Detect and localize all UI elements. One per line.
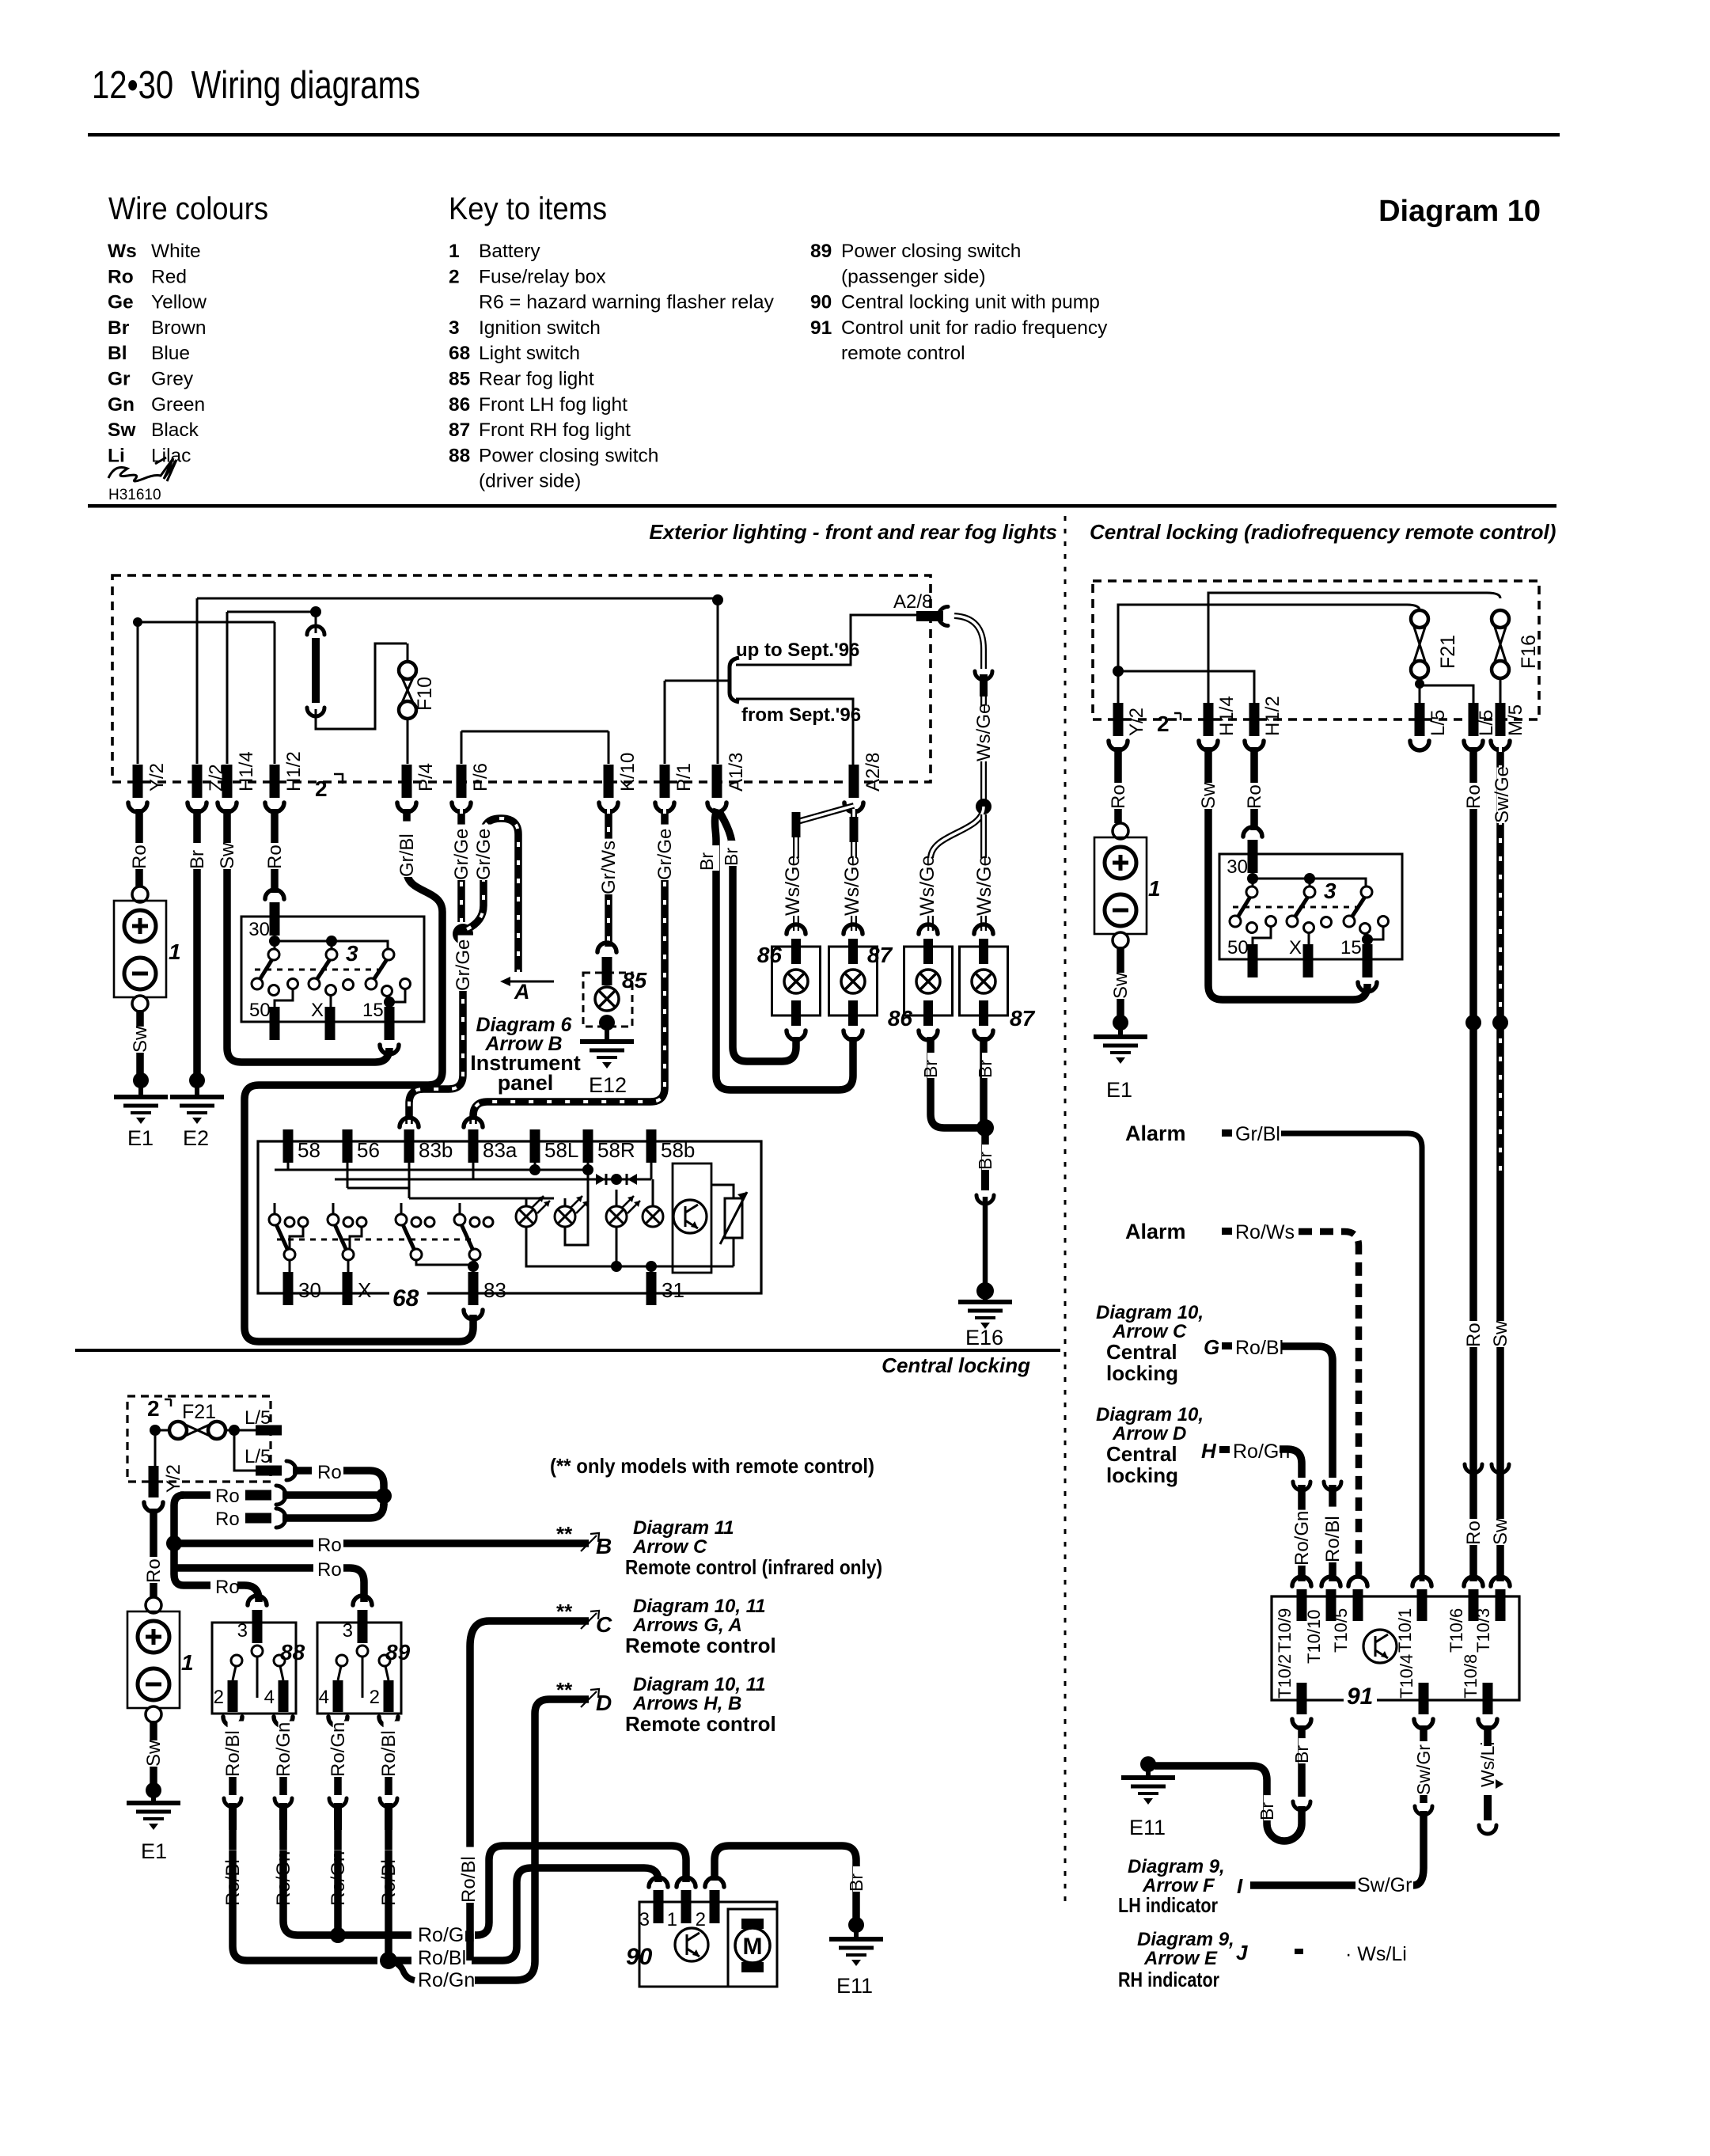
C riser wire Ro/Bl — [470, 1621, 489, 1961]
svg-text:Battery: Battery — [479, 241, 540, 262]
pin L/5 right fuse box — [1469, 703, 1479, 736]
svg-text:Ro: Ro — [1463, 1520, 1484, 1545]
svg-text:E1: E1 — [127, 1126, 154, 1150]
node: junction on ground bus — [712, 594, 723, 605]
svg-text:T10/5: T10/5 — [1331, 1608, 1351, 1653]
svg-text:Diagram 9,: Diagram 9, — [1128, 1856, 1225, 1877]
svg-text:85: 85 — [622, 968, 647, 993]
svg-text:G: G — [1204, 1335, 1219, 1359]
svg-text:Gn: Gn — [108, 394, 135, 416]
pin Y/2 (left central locking) — [154, 1430, 157, 1466]
svg-text:91: 91 — [810, 317, 832, 339]
svg-text:3: 3 — [237, 1620, 248, 1642]
svg-text:1: 1 — [449, 241, 460, 262]
fog lamp connector top — [844, 924, 863, 934]
ground E2 — [170, 1095, 224, 1099]
svg-text:· Ws/Li: · Ws/Li — [1345, 1943, 1407, 1965]
svg-text:H1/2: H1/2 — [1262, 696, 1283, 736]
svg-text:Arrow C: Arrow C — [1112, 1321, 1187, 1342]
svg-text:L/5: L/5 — [245, 1407, 271, 1429]
svg-text:Bl: Bl — [108, 343, 127, 364]
svg-text:Sw: Sw — [130, 1026, 151, 1053]
arm connections to bottom pins — [289, 1260, 291, 1272]
svg-text:Black: Black — [151, 419, 199, 441]
bulb return bus — [526, 1227, 734, 1266]
svg-text:88: 88 — [280, 1640, 305, 1664]
svg-text:(passenger side): (passenger side) — [841, 266, 985, 287]
svg-text:Sw: Sw — [108, 419, 136, 441]
pin 83 light switch — [468, 1272, 479, 1305]
arrow A to instrument panel — [508, 981, 554, 983]
svg-text:Sw/Gr: Sw/Gr — [1413, 1744, 1434, 1795]
in-line connector on Ws/Ge — [975, 671, 992, 680]
transistor symbol unit 91 — [1363, 1630, 1397, 1663]
F21 to L/5 pins — [1415, 679, 1424, 689]
svg-text:**: ** — [556, 1678, 573, 1702]
pin 1 unit 90 — [677, 1877, 696, 1887]
svg-text:86: 86 — [757, 943, 783, 967]
wire Ro from Y/2 to battery — [135, 809, 143, 886]
pin 30 — [1243, 827, 1262, 837]
svg-text:58R: 58R — [597, 1138, 635, 1162]
svg-text:Arrow C: Arrow C — [632, 1536, 707, 1558]
svg-text:Ro: Ro — [215, 1577, 240, 1598]
pin A2/8 on fuse box 2 — [849, 765, 859, 798]
svg-text:4: 4 — [319, 1687, 329, 1708]
svg-text:90: 90 — [626, 1944, 653, 1970]
battery 1 (bottom left) — [146, 1597, 161, 1613]
svg-text:2: 2 — [214, 1687, 224, 1708]
pin H1/4 on fuse box 2 — [222, 765, 233, 798]
row D exit — [549, 1695, 589, 1703]
wire Ro/Gn — [279, 1723, 287, 1795]
svg-text:Br: Br — [108, 317, 130, 339]
svg-text:Ws: Ws — [108, 241, 137, 262]
svg-text:Front RH fog light: Front RH fog light — [479, 419, 631, 441]
svg-text:H1/4: H1/4 — [1216, 696, 1238, 736]
svg-text:58b: 58b — [661, 1138, 695, 1162]
svg-text:Diagram 11: Diagram 11 — [633, 1517, 734, 1539]
svg-text:Control unit for radio frequen: Control unit for radio frequency — [841, 317, 1108, 339]
wire Sw/Ge from M/5 down to unit 91 — [1496, 747, 1504, 1179]
svg-text:58L: 58L — [544, 1138, 578, 1162]
svg-text:Ro/Bl: Ro/Bl — [222, 1730, 244, 1777]
wire Ro row 1 from L/5 — [293, 1467, 312, 1475]
svg-text:Ro: Ro — [1463, 1323, 1484, 1347]
row B to pump pin 3 — [395, 1957, 411, 1964]
svg-text:Sw: Sw — [143, 1740, 165, 1767]
svg-text:D: D — [596, 1691, 612, 1715]
battery 1 (left) — [132, 886, 148, 902]
svg-text:83: 83 — [483, 1278, 506, 1302]
svg-text:locking: locking — [1106, 1463, 1178, 1487]
in-line connector below node F10 branch — [315, 612, 317, 633]
svg-text:Ro/Bl: Ro/Bl — [1322, 1516, 1344, 1562]
panel illumination bulbs — [516, 1206, 537, 1227]
svg-text:Ro/Gn: Ro/Gn — [418, 1969, 475, 1991]
main to fog lamp 87 (pair 2) — [980, 814, 987, 931]
svg-text:P/4: P/4 — [415, 763, 437, 791]
node Gr/Ge junction — [453, 924, 473, 944]
svg-text:86: 86 — [888, 1006, 913, 1031]
svg-text:L/5: L/5 — [1476, 710, 1497, 736]
svg-text:56: 56 — [357, 1138, 380, 1162]
pins 50 X 15 — [270, 1007, 280, 1040]
Ws/Ge pair from A2/8 bottom connector — [796, 806, 854, 931]
svg-text:Y/2: Y/2 — [1126, 708, 1147, 736]
svg-text:1: 1 — [169, 939, 181, 964]
svg-text:83b: 83b — [419, 1138, 453, 1162]
fuse F10 — [407, 643, 409, 662]
pin 30 light switch — [283, 1272, 294, 1305]
pin 31 light switch — [646, 1272, 657, 1305]
pin M/5 right fuse box — [1496, 703, 1506, 736]
motor M unit 90 — [741, 1919, 764, 1929]
bracket split up-to/from Sept — [730, 658, 739, 702]
pins 50 X 15 — [1248, 944, 1258, 977]
svg-text:89: 89 — [385, 1640, 411, 1664]
svg-text:B: B — [596, 1534, 612, 1558]
svg-text:**: ** — [556, 1522, 573, 1546]
ground E1 (right) — [1094, 1034, 1147, 1039]
svg-text:E12: E12 — [589, 1073, 627, 1097]
wire Ro Y/2 to battery (right) — [1114, 747, 1122, 823]
svg-text:X: X — [1289, 937, 1302, 958]
pin X light switch — [343, 1272, 353, 1305]
regulator box with transistor — [673, 1163, 711, 1273]
svg-text:M: M — [743, 1934, 763, 1960]
svg-text:Ro/Bl: Ro/Bl — [418, 1947, 466, 1969]
pin 83b light switch — [404, 1129, 415, 1163]
svg-text:Li: Li — [108, 445, 125, 466]
row 2 connector Ro — [180, 1491, 210, 1499]
ignition switch box — [1219, 854, 1402, 959]
svg-text:Y/2: Y/2 — [146, 763, 168, 791]
pin 58R light switch — [583, 1129, 593, 1163]
svg-text:Brown: Brown — [151, 317, 206, 339]
svg-text:Ro: Ro — [317, 1535, 342, 1556]
svg-text:P/6: P/6 — [470, 763, 491, 791]
svg-text:68: 68 — [449, 343, 470, 364]
switch arms — [268, 949, 279, 960]
wire Br from pin 2 to E11 — [715, 1846, 856, 1919]
key rule — [88, 504, 1556, 508]
pin T10/6 unit 91 — [1464, 1577, 1483, 1586]
svg-text:30: 30 — [1227, 856, 1248, 878]
svg-text:F16: F16 — [1518, 635, 1540, 669]
svg-text:50: 50 — [249, 1000, 271, 1021]
pin 58L light switch — [530, 1129, 540, 1163]
svg-text:Gr/Ge: Gr/Ge — [453, 939, 474, 991]
svg-text:2: 2 — [315, 776, 328, 801]
svg-text:2: 2 — [1157, 712, 1170, 736]
svg-text:1: 1 — [1148, 876, 1161, 901]
svg-text:Ignition switch: Ignition switch — [479, 317, 601, 339]
svg-text:White: White — [151, 241, 201, 262]
svg-text:X: X — [311, 1000, 324, 1021]
svg-text:Alarm: Alarm — [1125, 1122, 1186, 1145]
fuse box 2 (small, dashed) — [127, 1396, 271, 1482]
svg-text:89: 89 — [810, 241, 832, 262]
wire: up to Sept.96 path to A2/8 — [736, 615, 916, 665]
signature + job number — [108, 457, 176, 481]
svg-text:3: 3 — [343, 1620, 353, 1642]
svg-text:A: A — [514, 980, 530, 1004]
svg-text:T10/6: T10/6 — [1446, 1608, 1466, 1653]
fuse/relay box 2 (dashed) — [112, 575, 931, 782]
ground E11 (right) — [1121, 1775, 1175, 1780]
svg-text:Ws/Ge: Ws/Ge — [973, 704, 995, 761]
svg-text:2: 2 — [147, 1396, 160, 1421]
svg-text:Ro: Ro — [264, 845, 286, 869]
svg-text:15: 15 — [362, 1000, 384, 1021]
svg-text:T10/2: T10/2 — [1275, 1654, 1295, 1699]
cup above light switch 83b — [400, 1118, 419, 1127]
svg-text:Ro: Ro — [317, 1462, 342, 1483]
svg-text:Br: Br — [975, 1152, 995, 1170]
cup below ignition-left pin 15 — [380, 1045, 399, 1054]
svg-text:Ro: Ro — [108, 266, 134, 287]
svg-text:Ro: Ro — [215, 1486, 240, 1507]
wire Sw to ground right — [1117, 947, 1124, 1018]
svg-text:3: 3 — [346, 941, 358, 966]
svg-text:up to Sept.'96: up to Sept.'96 — [736, 640, 859, 661]
switch arms light switch — [269, 1214, 280, 1225]
svg-text:Diagram 10, 11: Diagram 10, 11 — [633, 1674, 766, 1695]
svg-text:Yellow: Yellow — [151, 292, 207, 313]
svg-text:Remote control: Remote control — [625, 1712, 776, 1736]
svg-text:Arrow E: Arrow E — [1143, 1948, 1218, 1969]
ground E11 (left) — [829, 1937, 883, 1942]
wire Sw to ground — [150, 1721, 157, 1786]
aux contacts — [285, 1217, 294, 1227]
wire Br to E16 with connector — [981, 1128, 989, 1170]
svg-text:Ro/Gn: Ro/Gn — [328, 1722, 349, 1777]
wire Gr/Ge from P/1 to 83a — [473, 809, 665, 1124]
svg-text:87: 87 — [1010, 1006, 1036, 1031]
pin T10/2 unit 91 (bottom) — [1297, 1683, 1307, 1714]
switch arms — [1246, 886, 1257, 898]
wire Ro from Y/2 to battery (bottom) — [150, 1509, 157, 1597]
svg-text:R6 = hazard warning flasher re: R6 = hazard warning flasher relay — [479, 292, 775, 313]
svg-text:Sw: Sw — [1198, 782, 1219, 809]
svg-text:A1/3: A1/3 — [726, 753, 747, 791]
svg-text:T10/3: T10/3 — [1473, 1608, 1493, 1653]
svg-text:Br: Br — [696, 852, 717, 871]
svg-text:2: 2 — [696, 1909, 706, 1930]
wire Sw from H1/4 to ignition 15 — [227, 809, 389, 1062]
svg-text:(** only models with remote co: (** only models with remote control) — [550, 1454, 874, 1478]
node row B tap — [166, 1535, 182, 1551]
pin Y/2 on fuse box 2 — [133, 765, 143, 798]
wire Ro/Bl — [229, 1723, 237, 1795]
svg-text:Br: Br — [1291, 1745, 1312, 1763]
cup above light switch 83a — [464, 1118, 483, 1127]
connector L/5 (lower) — [234, 1430, 256, 1471]
svg-text:2: 2 — [449, 266, 460, 287]
svg-text:Ws/Ge: Ws/Ge — [973, 856, 995, 916]
svg-text:Power closing switch: Power closing switch — [841, 241, 1021, 262]
wire Gr/Bl from P/4 looping to light switch 83 — [245, 809, 473, 1342]
wire Sw from battery to ground — [136, 1010, 144, 1076]
K/10 to P/6 bus — [461, 731, 609, 733]
rear fog light 85 connector — [597, 943, 616, 952]
svg-text:F10: F10 — [414, 677, 436, 711]
svg-text:E2: E2 — [183, 1126, 209, 1150]
pin 30 — [265, 890, 284, 899]
wire Ro from H1/2 to ignition 30 — [271, 809, 279, 893]
svg-text:Br: Br — [187, 850, 208, 869]
node Br join — [976, 1119, 994, 1137]
pin 58 light switch — [283, 1129, 294, 1163]
svg-text:(driver side): (driver side) — [479, 471, 581, 492]
svg-text:Central: Central — [1106, 1340, 1177, 1364]
control unit 91 — [1272, 1596, 1519, 1700]
pin H1/4 right fuse box — [1204, 703, 1214, 736]
branch to instrument panel A — [467, 818, 518, 972]
svg-text:Diagram 10,: Diagram 10, — [1096, 1302, 1204, 1323]
node rows join — [376, 1488, 392, 1504]
wire Ro/Gn 88-4 to row A — [283, 1850, 332, 1935]
wire Ws/Li from T10/8 — [1484, 1725, 1492, 1746]
svg-text:Green: Green — [151, 394, 205, 416]
Ws/Ge wire from A2/8 in-line connector (top) — [954, 616, 984, 669]
ground E1 (left) — [114, 1095, 168, 1099]
svg-text:H1/2: H1/2 — [283, 751, 305, 791]
svg-text:91: 91 — [1347, 1683, 1373, 1710]
svg-text:Central locking: Central locking — [882, 1353, 1030, 1377]
row A to pump pin 1 — [344, 1931, 411, 1939]
wire Ro/Bl — [385, 1723, 392, 1795]
dashed detent line — [255, 969, 378, 971]
svg-text:Ws/Ge: Ws/Ge — [916, 856, 938, 916]
svg-text:J: J — [1236, 1941, 1248, 1964]
svg-text:87: 87 — [449, 419, 470, 441]
svg-text:L/5: L/5 — [245, 1446, 271, 1467]
svg-text:E11: E11 — [836, 1974, 873, 1998]
svg-text:Key to items: Key to items — [449, 192, 607, 226]
pin 58b light switch — [646, 1129, 657, 1163]
svg-text:X: X — [358, 1278, 371, 1302]
svg-text:E1: E1 — [1106, 1078, 1132, 1102]
row B long Ro wire — [174, 1539, 313, 1547]
wire Ro from L/5 down to unit 91 — [1469, 747, 1477, 1581]
branch to fog lamp 86 (pair 2) — [931, 807, 984, 931]
svg-text:Gr/Bl: Gr/Bl — [396, 833, 418, 877]
svg-text:Arrows H, B: Arrows H, B — [632, 1693, 741, 1714]
svg-text:Br: Br — [920, 1060, 941, 1078]
central locking unit 90 — [639, 1902, 777, 1987]
svg-text:Y/2: Y/2 — [163, 1464, 184, 1493]
svg-text:Ro: Ro — [215, 1509, 240, 1530]
pin P/4 on fuse box 2 — [402, 765, 412, 798]
node Ws/Ge split — [976, 799, 991, 814]
svg-text:Ro/Gn: Ro/Gn — [273, 1722, 294, 1777]
svg-text:Br: Br — [1257, 1802, 1277, 1820]
row to 88 pin 3 — [184, 1581, 210, 1589]
svg-text:Exterior lighting - front and: Exterior lighting - front and rear fog l… — [649, 520, 1057, 544]
svg-text:H: H — [1201, 1439, 1217, 1463]
pin Y/2 right fuse box — [1113, 703, 1124, 736]
svg-text:Br: Br — [975, 1060, 995, 1078]
svg-text:Arrows G, A: Arrows G, A — [632, 1615, 742, 1636]
P/1 to connector bracket — [664, 681, 666, 764]
wire Br from 87 late down — [980, 1037, 988, 1124]
svg-text:T10/9: T10/9 — [1275, 1608, 1295, 1653]
svg-text:68: 68 — [392, 1285, 419, 1311]
pin H1/2 on fuse box 2 — [270, 765, 280, 798]
pin K/10 on fuse box 2 — [604, 765, 614, 798]
svg-text:E1: E1 — [141, 1839, 167, 1863]
svg-text:3: 3 — [1324, 879, 1337, 903]
svg-text:Light switch: Light switch — [479, 343, 580, 364]
svg-text:83a: 83a — [483, 1138, 518, 1162]
svg-text:Ro/Bl: Ro/Bl — [378, 1730, 400, 1777]
pin T10/10 unit 91 — [1321, 1577, 1340, 1586]
svg-text:Gr: Gr — [108, 369, 131, 390]
node left of F21 — [150, 1425, 161, 1436]
svg-text:Diagram 10: Diagram 10 — [1378, 195, 1541, 228]
svg-text:Ro/Bl: Ro/Bl — [1235, 1337, 1283, 1359]
svg-text:Sw/Gr: Sw/Gr — [1357, 1874, 1412, 1896]
svg-text:12•30 Wiring diagrams: 12•30 Wiring diagrams — [92, 64, 420, 107]
wire Ro/Bl 88-2 to row B — [233, 1850, 377, 1961]
rear fog light 85 (dashed box) — [583, 973, 632, 1027]
svg-text:30: 30 — [248, 919, 270, 940]
wire Ro from H1/2 to ignition 30 (right) — [1250, 747, 1258, 830]
svg-text:Sw: Sw — [1490, 1518, 1511, 1545]
connector L/5 (upper) — [234, 1429, 256, 1432]
svg-text:Sw/Ge: Sw/Ge — [1492, 766, 1513, 823]
wire Br from 86 late to junction — [931, 1037, 979, 1128]
svg-text:Rear fog light: Rear fog light — [479, 369, 594, 390]
svg-text:Power closing switch: Power closing switch — [479, 445, 658, 466]
svg-text:Sw: Sw — [1490, 1320, 1511, 1347]
svg-text:Ro: Ro — [143, 1558, 165, 1583]
wire Br from T10/2 to E11 — [1298, 1725, 1306, 1797]
svg-text:15: 15 — [1340, 937, 1362, 958]
svg-text:Ro: Ro — [317, 1559, 342, 1581]
wire: from Sept.96 path to A2/8 lower — [736, 699, 853, 765]
svg-text:Central locking (radiofrequenc: Central locking (radiofrequency remote c… — [1090, 520, 1556, 544]
svg-text:Ro/Ws: Ro/Ws — [1235, 1221, 1295, 1243]
svg-text:from Sept.'96: from Sept.'96 — [741, 704, 861, 726]
svg-text:Gr/Ge: Gr/Ge — [473, 829, 495, 880]
fuse F21 (right) — [1411, 610, 1428, 628]
pin T10/9 unit 91 — [1292, 1577, 1311, 1586]
svg-text:I: I — [1237, 1874, 1243, 1898]
svg-text:Gr/Ws: Gr/Ws — [598, 841, 620, 894]
pin 83a light switch — [468, 1129, 479, 1163]
svg-text:31: 31 — [662, 1278, 684, 1302]
svg-text:Ge: Ge — [108, 292, 134, 313]
wire Br from Z/2 to ground E2 — [193, 809, 201, 1076]
fog lamp connector top — [974, 924, 993, 934]
svg-text:E16: E16 — [965, 1326, 1003, 1349]
pin T10/5 unit 91 — [1348, 1577, 1367, 1586]
pin L/5 right fuse box — [1415, 703, 1425, 736]
svg-text:Ws/Ge: Ws/Ge — [782, 856, 804, 916]
svg-text:Ws/Li: Ws/Li — [1477, 1742, 1498, 1788]
svg-text:Blue: Blue — [151, 343, 190, 364]
cup below light switch 83 — [464, 1310, 483, 1319]
wire Sw from H1/4 to ignition 15 (right) — [1208, 747, 1367, 1000]
wire Gr/Ws from K/10 to rear fog light — [605, 809, 612, 947]
power closing switch 89 — [353, 1596, 372, 1605]
svg-text:Grey: Grey — [151, 369, 194, 390]
pin Z/2 on fuse box 2 — [192, 765, 203, 798]
svg-text:RH indicator: RH indicator — [1118, 1968, 1219, 1991]
